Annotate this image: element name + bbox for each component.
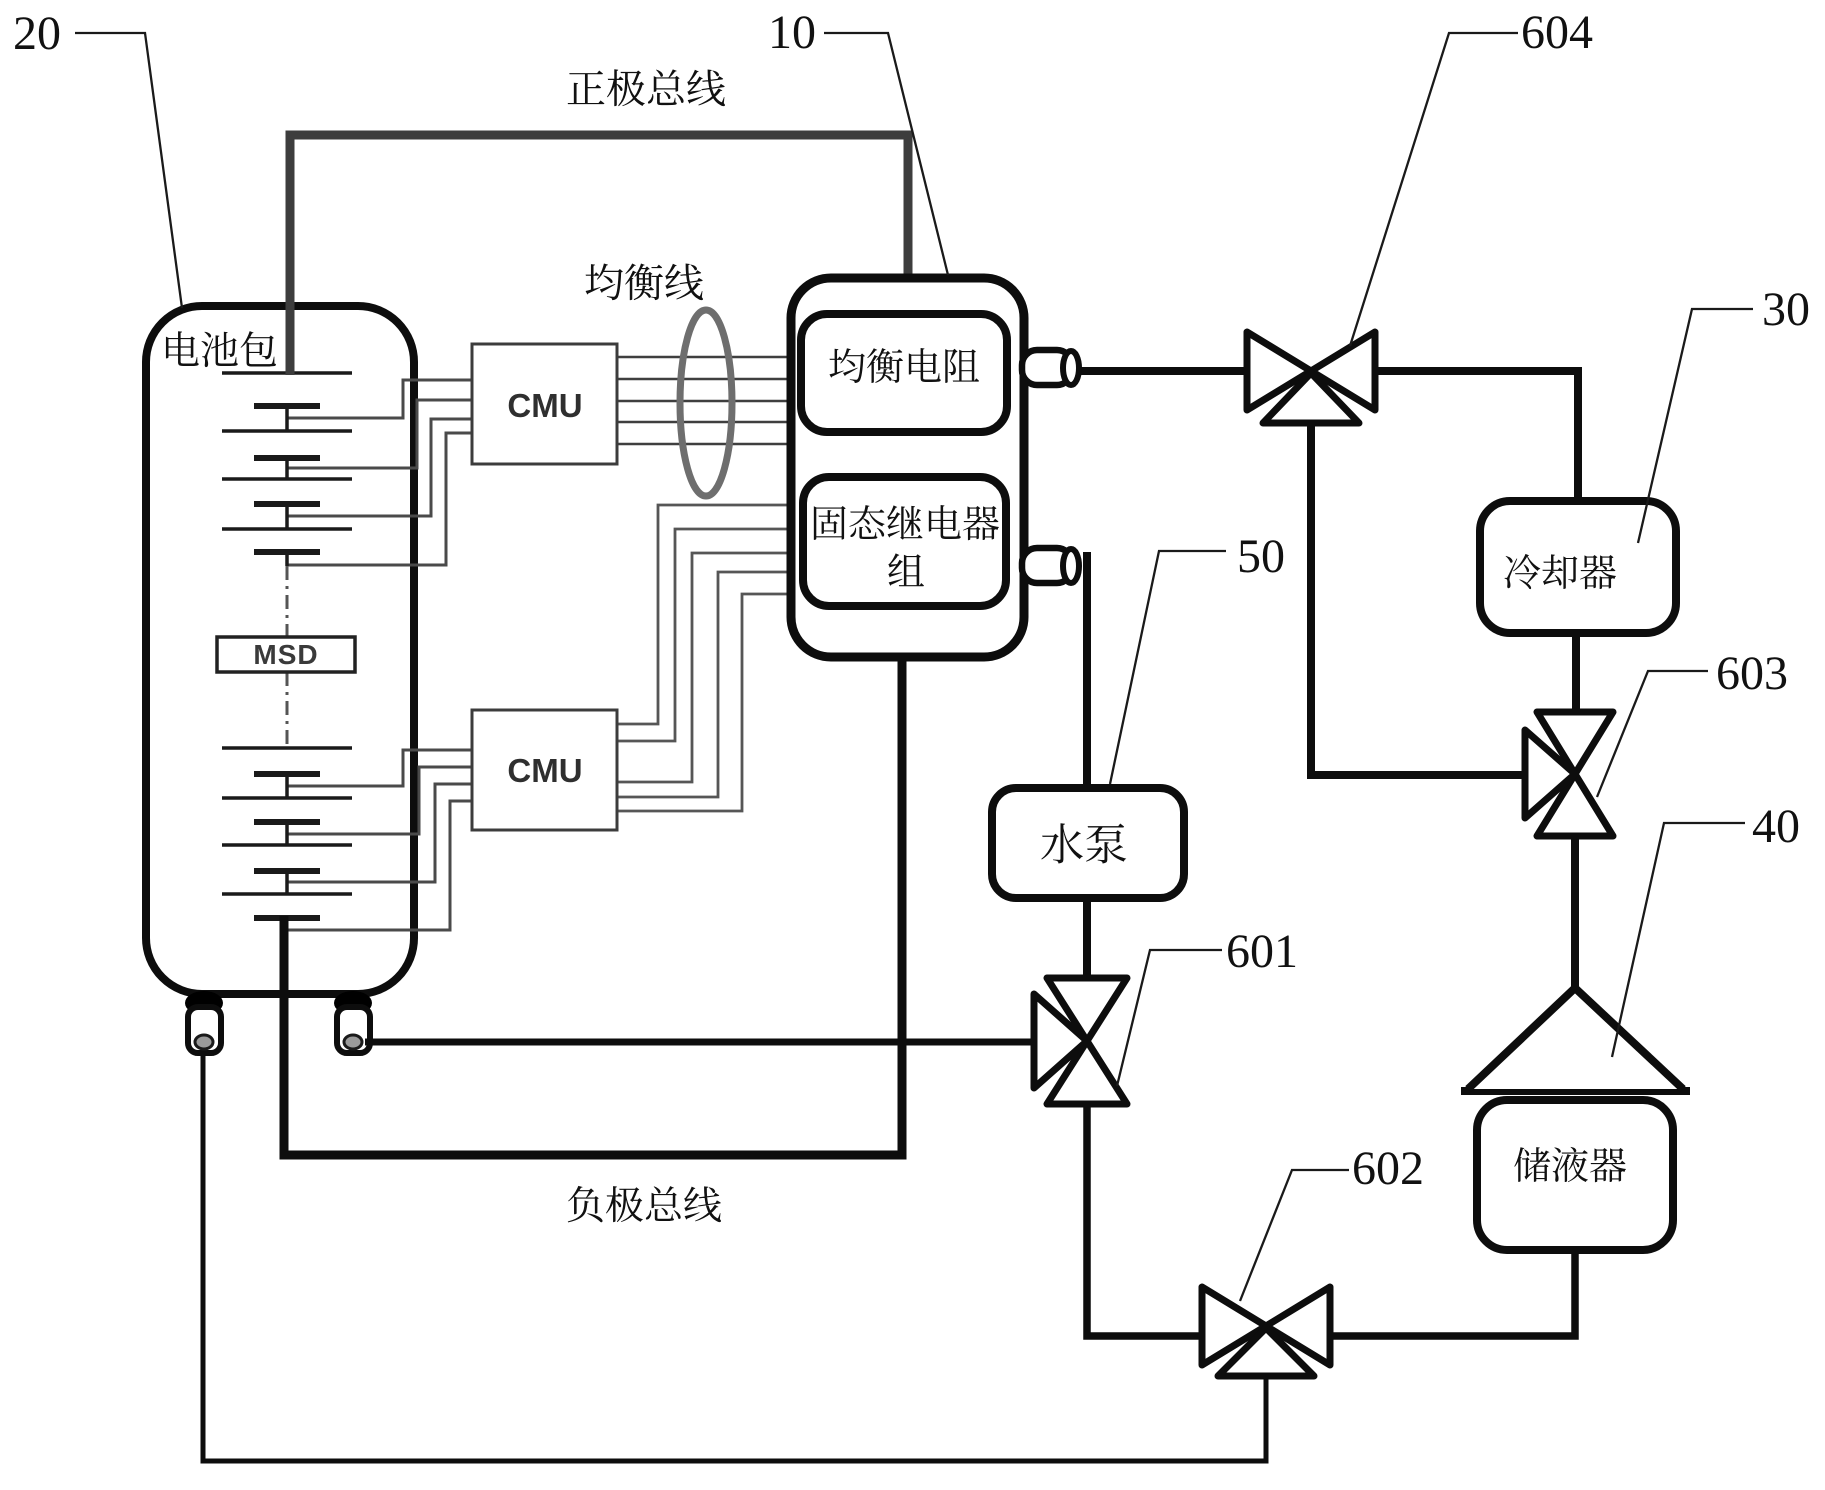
svg-text:604: 604	[1521, 6, 1593, 59]
svg-text:601: 601	[1226, 925, 1298, 978]
svg-text:CMU: CMU	[507, 752, 582, 789]
svg-text:MSD: MSD	[253, 639, 318, 670]
svg-text:602: 602	[1352, 1142, 1424, 1195]
svg-text:50: 50	[1237, 530, 1285, 583]
svg-text:20: 20	[13, 7, 61, 60]
svg-text:40: 40	[1752, 800, 1800, 853]
svg-text:603: 603	[1716, 647, 1788, 700]
svg-text:30: 30	[1762, 283, 1810, 336]
svg-text:CMU: CMU	[507, 387, 582, 424]
svg-text:10: 10	[768, 6, 816, 59]
